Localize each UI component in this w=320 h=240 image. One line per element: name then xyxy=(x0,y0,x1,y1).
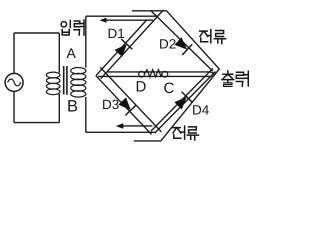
svg-text:D4: D4 xyxy=(192,103,210,118)
svg-text:B: B xyxy=(67,98,78,116)
wire outer chevron left lower arm xyxy=(96,76,152,135)
label 전류 current bottom (drawn hangul) xyxy=(173,126,199,140)
wire left loop top xyxy=(14,32,59,34)
transformer secondary coil xyxy=(71,68,86,98)
arrow current bottom xyxy=(116,123,124,129)
svg-text:D: D xyxy=(136,79,147,96)
diode D3 xyxy=(118,97,130,110)
wire left loop right vertical upper xyxy=(58,33,60,73)
label 전류 current top (drawn hangul) xyxy=(200,30,226,44)
transformer core xyxy=(63,66,65,95)
node load band lower line xyxy=(98,73,214,76)
diode bridge edge upper-right inner xyxy=(151,11,213,71)
label 입력 input (drawn hangul) xyxy=(61,20,84,35)
arrow current top xyxy=(100,18,107,23)
diode bridge edge upper-left inner xyxy=(101,10,164,79)
wire top horizontal to bridge xyxy=(86,15,158,17)
terminal D circle xyxy=(139,71,145,77)
wire outer chevron left upper arm xyxy=(96,20,147,76)
wire current line bottom xyxy=(120,125,153,127)
svg-text:D2: D2 xyxy=(159,37,176,52)
wire left loop right vertical lower xyxy=(58,94,60,123)
svg-text:D1: D1 xyxy=(108,26,125,41)
wire left loop bottom-left vertical xyxy=(13,92,15,123)
wire left loop top-left vertical xyxy=(13,33,15,73)
diode D1 xyxy=(115,44,127,57)
wire current line top xyxy=(103,19,153,21)
wire secondary bottom vertical xyxy=(85,97,87,132)
wire secondary top vertical xyxy=(85,16,87,67)
svg-text:D3: D3 xyxy=(102,97,119,112)
diode D2 xyxy=(175,37,188,49)
resistor R load zigzag xyxy=(145,70,162,77)
transformer primary coil xyxy=(46,72,60,95)
AC source V1 xyxy=(5,73,23,91)
wire lower-right edge outer parallel xyxy=(155,72,216,134)
node load band upper line xyxy=(107,72,214,73)
wire bottom horizontal to bridge xyxy=(86,131,156,133)
label 출력 output (drawn hangul) xyxy=(222,71,248,86)
diode bridge edge lower-left inner xyxy=(100,67,161,131)
terminal C circle xyxy=(162,71,168,77)
svg-text:A: A xyxy=(67,45,77,61)
wire left loop bottom xyxy=(14,122,59,124)
svg-text:C: C xyxy=(164,80,175,97)
diode D4 xyxy=(174,97,187,110)
diode bridge edge lower-right inner xyxy=(151,68,213,131)
wire outer current path right xyxy=(132,11,219,141)
